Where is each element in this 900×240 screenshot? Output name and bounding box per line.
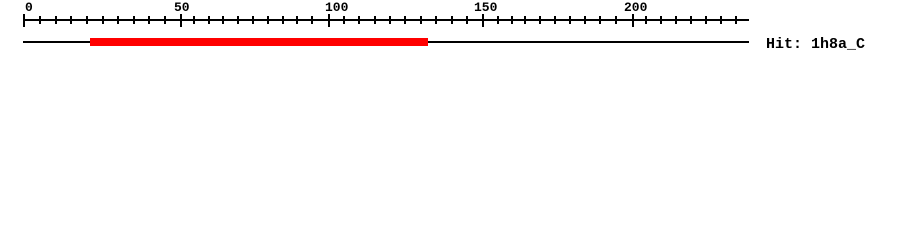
minor ticks segment 0-50 xyxy=(39,16,41,24)
ruler label 50 xyxy=(174,1,190,14)
major tick 150 xyxy=(482,14,484,27)
ruler label 0 xyxy=(25,1,33,14)
minor ticks after 200 xyxy=(645,16,647,24)
hit line xyxy=(23,41,749,43)
major tick 50 xyxy=(180,14,182,27)
minor ticks segment 100-150 xyxy=(343,16,345,24)
ruler label 200 xyxy=(624,1,647,14)
minor ticks segment 50-100 xyxy=(193,16,195,24)
hit name text xyxy=(766,37,865,52)
ruler label 100 xyxy=(325,1,348,14)
major tick 200 xyxy=(632,14,634,27)
ruler label 150 xyxy=(474,1,497,14)
minor ticks segment 150-200 xyxy=(497,16,499,24)
major tick 100 xyxy=(328,14,330,27)
major tick 0 xyxy=(23,14,25,27)
ruler axis line xyxy=(23,19,749,21)
hit red bar xyxy=(90,38,428,46)
